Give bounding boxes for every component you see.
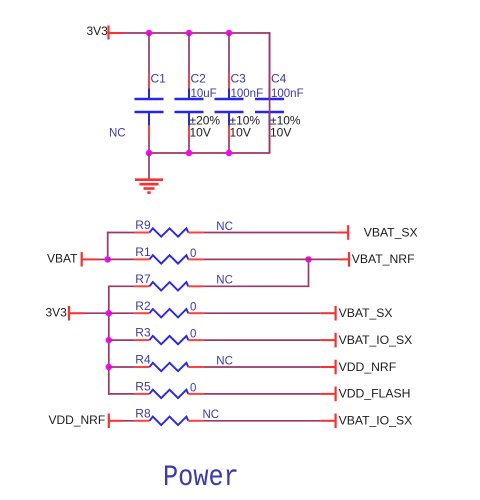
port VDD_NRF (R4 row)	[321, 360, 336, 375]
svg-text:R3: R3	[135, 326, 151, 340]
svg-text:3V3: 3V3	[46, 306, 68, 320]
pin C1 pin 2	[148, 126, 150, 140]
capacitor C2	[175, 89, 204, 126]
junction: top rail / C2	[186, 30, 192, 36]
pin R8 pin 1	[135, 420, 150, 422]
wire: top rail to C2 pin 1	[188, 33, 190, 74]
wire: 3V3 bus down to R5 row	[108, 312, 110, 394]
wire: top rail to C1 pin 1	[148, 33, 150, 74]
pin C2 pin 2	[188, 126, 190, 140]
power port 3V3 (bottom)	[69, 306, 84, 321]
svg-text:R8: R8	[135, 406, 151, 420]
svg-text:VBAT_SX: VBAT_SX	[364, 225, 418, 239]
junction: 3V3 bus / R3	[106, 337, 112, 343]
svg-text:100nF: 100nF	[271, 88, 304, 100]
svg-text:Power: Power	[163, 462, 239, 495]
pin R7 pin 2	[188, 285, 203, 287]
svg-text:0: 0	[190, 302, 196, 314]
junction: top rail / C1	[146, 30, 152, 36]
wire: VBAT junction to R1 pin	[108, 258, 135, 260]
port VDD_FLASH (R5 row)	[321, 387, 336, 402]
svg-text:VDD_FLASH: VDD_FLASH	[339, 387, 411, 401]
pin R8 pin 2	[188, 420, 203, 422]
svg-text:C1: C1	[151, 72, 167, 86]
resistor R3	[150, 336, 189, 344]
ground	[135, 180, 163, 193]
svg-text:VBAT_IO_SX: VBAT_IO_SX	[339, 333, 413, 347]
wire: R4 row left horizontal	[109, 366, 135, 368]
power port 3V3 (top)	[109, 26, 124, 40]
power port VBAT	[82, 252, 98, 267]
pin C2 pin 1	[188, 74, 190, 89]
svg-text:10uF: 10uF	[191, 88, 217, 100]
wire: VBAT port to junction	[98, 258, 109, 260]
pin R2 pin 1	[135, 312, 150, 314]
svg-text:VDD_NRF: VDD_NRF	[339, 360, 397, 374]
power port VDD_NRF	[109, 414, 123, 429]
pin R4 pin 1	[135, 366, 150, 368]
wire: C1 pin 2 to gnd rail	[148, 140, 150, 153]
wire: riser VBAT to R9 row	[107, 232, 109, 261]
wire: riser 3V3 to R7 row	[108, 286, 110, 315]
svg-text:R4: R4	[135, 353, 151, 367]
wire: R7 pin 2 to VBAT_NRF node	[203, 285, 309, 287]
port VBAT_SX (R2 row)	[321, 306, 336, 321]
svg-text:R7: R7	[135, 272, 151, 286]
svg-text:R9: R9	[135, 218, 151, 232]
wire: R2 pin 2 to port	[203, 312, 320, 314]
resistor R7	[150, 282, 189, 290]
svg-text:VBAT: VBAT	[47, 252, 78, 266]
svg-text:C4: C4	[271, 72, 287, 86]
wire: VBAT_NRF junction down to R7 row	[308, 259, 310, 288]
svg-text:VBAT_IO_SX: VBAT_IO_SX	[339, 414, 413, 428]
wire: R1 pin 2 to port	[203, 258, 338, 260]
wire: 3V3 junction to R2 pin	[109, 312, 135, 314]
pin R4 pin 2	[188, 366, 203, 368]
svg-text:VBAT_SX: VBAT_SX	[339, 306, 393, 320]
svg-text:10V: 10V	[270, 126, 291, 140]
wire: C4 right drop	[269, 32, 271, 154]
wire: R7 row left horizontal	[108, 285, 135, 287]
junction: gnd rail / C1	[146, 150, 152, 156]
svg-text:R5: R5	[135, 380, 151, 394]
pin C4 pin 1	[269, 74, 271, 89]
wire: VDD_NRF port to R8 pin	[123, 420, 135, 422]
junction: gnd rail / C2	[186, 150, 192, 156]
wire: R9 pin 2 to port	[203, 232, 336, 234]
wire: C3 pin 2 to gnd rail	[228, 140, 230, 153]
wire: R9 row left horizontal	[107, 232, 135, 234]
svg-text:NC: NC	[216, 221, 233, 233]
port VBAT_IO_SX (R8 row)	[321, 414, 336, 429]
junction: 3V3 bus / R4	[106, 364, 112, 370]
pin R5 pin 1	[135, 393, 150, 395]
pin R2 pin 2	[188, 312, 203, 314]
svg-text:NC: NC	[203, 409, 220, 421]
pin C1 pin 1	[148, 74, 150, 89]
wire: C4 pin 2 to gnd rail	[269, 140, 271, 153]
pin R1 pin 1	[135, 258, 150, 260]
wire: R4 pin 2 to port	[203, 366, 320, 368]
svg-text:VDD_NRF: VDD_NRF	[49, 413, 106, 427]
svg-text:R1: R1	[135, 245, 151, 259]
junction: VBAT_NRF node	[305, 256, 311, 262]
pin R1 pin 2	[188, 258, 203, 260]
pin C3 pin 2	[228, 126, 230, 140]
capacitor C3	[215, 89, 244, 126]
wire: R8 pin 2 to port	[203, 420, 320, 422]
wire: R3 row left horizontal	[109, 339, 135, 341]
junction: 3V3 node / R2	[106, 310, 112, 316]
svg-text:10V: 10V	[190, 126, 211, 140]
pin R3 pin 2	[188, 339, 203, 341]
resistor R4	[150, 363, 189, 371]
svg-text:10V: 10V	[230, 126, 251, 140]
svg-text:VBAT_NRF: VBAT_NRF	[352, 252, 415, 266]
wire: 3V3 port to junction	[84, 312, 109, 314]
wire: R5 pin 2 to port	[203, 393, 320, 395]
junction: top rail / C3	[226, 30, 232, 36]
svg-text:C3: C3	[231, 72, 247, 86]
svg-text:R2: R2	[135, 299, 151, 313]
svg-text:C2: C2	[191, 72, 207, 86]
capacitor C4	[255, 89, 284, 126]
wire: R3 pin 2 to port	[203, 339, 320, 341]
svg-text:0: 0	[190, 382, 196, 394]
pin R3 pin 1	[135, 339, 150, 341]
wire: top rail to C4 pin 1	[269, 33, 271, 74]
resistor R1	[150, 255, 189, 263]
pin R9 pin 1	[135, 232, 150, 234]
junction: gnd rail / C3	[226, 150, 232, 156]
wire: ground rail	[149, 152, 270, 154]
port VBAT_SX (R9 row)	[337, 225, 349, 240]
wire: gnd rail to ground symbol	[148, 153, 150, 179]
pin C3 pin 1	[228, 74, 230, 89]
svg-text:0: 0	[190, 329, 196, 341]
resistor R5	[150, 390, 189, 398]
port VBAT_NRF (R1 row)	[339, 252, 349, 267]
wire: C2 pin 2 to gnd rail	[188, 140, 190, 153]
svg-text:0: 0	[190, 248, 196, 260]
pin R7 pin 1	[135, 285, 150, 287]
wire: 3V3 top rail	[123, 32, 270, 34]
port VBAT_IO_SX (R3 row)	[321, 333, 336, 348]
wire: top rail to C3 pin 1	[228, 33, 230, 74]
resistor R9	[150, 228, 189, 236]
wire: R5 row left horizontal	[108, 393, 135, 395]
resistor R2	[150, 309, 189, 317]
pin C4 pin 2	[269, 126, 271, 140]
svg-text:NC: NC	[216, 355, 233, 367]
pin R5 pin 2	[188, 393, 203, 395]
svg-text:NC: NC	[109, 128, 126, 140]
capacitor C1	[135, 89, 164, 126]
svg-text:NC: NC	[216, 275, 233, 287]
svg-text:3V3: 3V3	[87, 24, 109, 38]
pin R9 pin 2	[188, 232, 203, 234]
resistor R8	[150, 417, 189, 425]
junction: VBAT node	[105, 256, 111, 262]
